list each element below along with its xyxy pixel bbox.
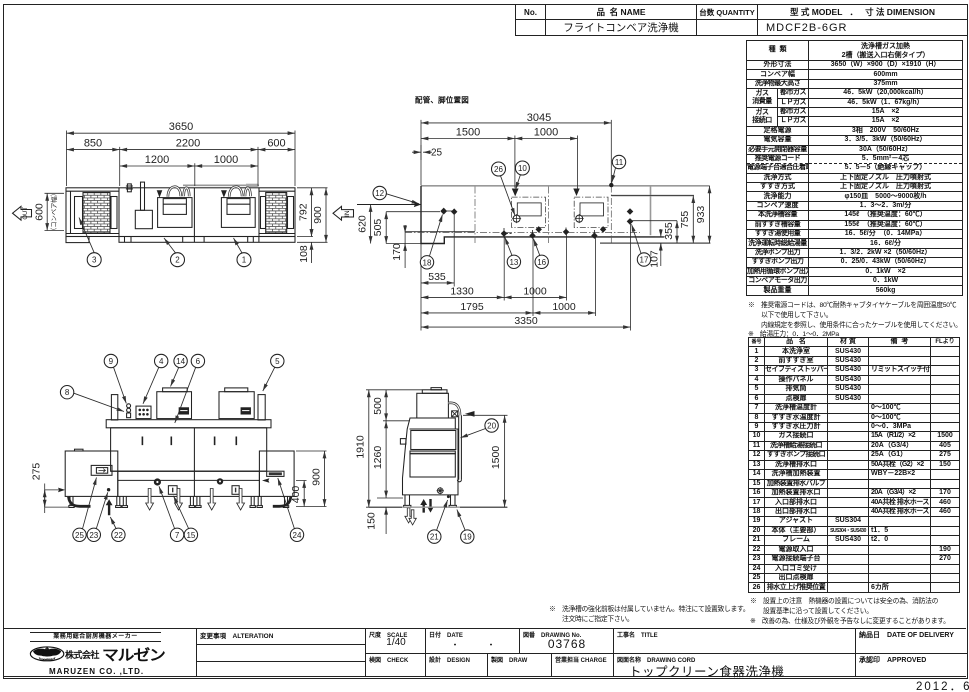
end hood — [417, 393, 449, 418]
piping connector lines left tank — [444, 211, 603, 236]
plan section dividers — [119, 188, 259, 237]
piping gas arrow right — [573, 189, 579, 197]
elev dim 900 — [296, 451, 327, 507]
balloon 26 — [492, 162, 506, 176]
plan wash tank left — [158, 198, 192, 228]
plan left conveyor small rect — [75, 197, 83, 229]
end balloon 20 — [485, 419, 498, 432]
elev control panel (item 4) — [136, 406, 151, 419]
plan dimension extension lines — [45, 131, 328, 243]
dim 25 — [412, 151, 421, 153]
piping gas arrow left — [512, 189, 519, 197]
end drain hollow arrows — [405, 508, 416, 525]
elev safety stopper valves (item 9) — [127, 404, 131, 408]
elev balloon 6 — [191, 354, 204, 367]
dim 1500 — [421, 138, 515, 140]
dim 535 — [421, 282, 454, 284]
date / design — [425, 629, 520, 653]
dim 1000 lower — [533, 312, 596, 314]
elev balloon 8 — [60, 386, 73, 399]
elev balloon 15 — [184, 528, 197, 541]
end dim 150 — [369, 506, 507, 508]
end legs — [404, 495, 457, 507]
elev balloon 25 — [73, 528, 86, 541]
balloon 2 — [164, 238, 176, 253]
piping extension lines — [371, 120, 711, 331]
dim 755 — [692, 196, 694, 244]
plan hose arches left tank — [168, 187, 251, 197]
dim 1000 mid — [504, 296, 566, 298]
elev balloon 4 — [155, 354, 168, 367]
piping wash tank left (chain) — [512, 197, 546, 227]
end extension lines — [366, 390, 508, 507]
scale / check — [365, 629, 426, 653]
piping wash tank right (chain) — [574, 197, 608, 227]
dim 3045 — [421, 122, 611, 124]
elev balloon 14 — [174, 354, 187, 367]
end door panel — [410, 454, 455, 477]
balloon 18 — [420, 256, 433, 269]
elev base — [111, 470, 267, 472]
dim 600 top — [258, 149, 295, 151]
plan left step — [66, 237, 89, 243]
balloon 1 — [234, 238, 243, 253]
end inlet arrow (solid left) — [465, 411, 475, 417]
dim 1330 — [421, 296, 504, 298]
plan right conveyor belt hatch — [266, 193, 287, 234]
OUT arrow — [13, 206, 32, 220]
plan body outline — [66, 188, 295, 237]
title / drawing cord — [613, 629, 856, 653]
elev balloon 24 — [290, 528, 303, 541]
piping phantom outline (gray) — [421, 186, 710, 235]
elev upper body / doors — [111, 428, 267, 471]
piping gas inlet circle right — [576, 215, 583, 222]
elev left hood box — [157, 392, 192, 419]
end adjuster cross — [437, 488, 443, 494]
balloon 16 — [535, 255, 548, 268]
IN arrow piping — [333, 206, 354, 220]
dim 1000 top — [515, 138, 578, 140]
plan right conveyor frame — [259, 191, 295, 233]
elev balloon 5 — [271, 354, 284, 367]
balloon 3 — [79, 218, 94, 253]
svg-text:MARUZEN: MARUZEN — [40, 656, 54, 660]
end small dot — [447, 495, 450, 498]
end balloon 19 — [461, 530, 474, 543]
elev door handles — [142, 437, 236, 446]
dim 107 — [660, 229, 662, 237]
elev balloon 23 — [87, 528, 100, 541]
elev right hood box — [219, 392, 254, 419]
plan gas arrow left tank — [157, 190, 163, 197]
piping bottom line ext — [386, 243, 421, 245]
plan gas arrow right tank — [221, 190, 227, 197]
end dim 1910 — [368, 390, 370, 507]
elev valve left (item 7) — [154, 478, 161, 485]
maruzen bird logo — [29, 646, 66, 662]
end conveyor slot band — [410, 451, 455, 454]
elev right table — [259, 451, 294, 496]
elev balloon 7 — [170, 528, 183, 541]
end balloon 21 — [428, 530, 441, 543]
balloon 13 — [507, 255, 520, 268]
elev balloon 9 — [104, 354, 117, 367]
plan left conveyor frame — [66, 191, 119, 233]
elev dim 275 — [44, 490, 46, 507]
balloon 12 — [373, 186, 386, 199]
end dim 500 — [385, 390, 387, 421]
dim 1200 — [120, 165, 195, 167]
elev left table — [65, 451, 118, 496]
piping machine solid outline — [421, 186, 664, 244]
end rear box — [400, 439, 406, 445]
dim 933 — [709, 186, 711, 243]
balloon 10 — [515, 161, 529, 175]
dim 1795 — [421, 312, 533, 314]
dim 108 — [311, 242, 313, 263]
elev right exhaust post — [258, 395, 265, 420]
dim 505 — [385, 212, 387, 244]
elev left exhaust post — [111, 395, 117, 420]
elev valve right — [217, 478, 223, 484]
elev terminal dot (item 23) — [107, 488, 110, 491]
elev legs — [69, 496, 289, 507]
elev drain hose left (item 17) — [69, 497, 91, 507]
parts table — [748, 337, 959, 593]
header table — [515, 4, 967, 35]
alteration cell — [196, 629, 366, 676]
elev power inlet arrow (item 22, solid up) — [106, 499, 113, 515]
elev control panel buttons — [139, 409, 149, 416]
dim 850 — [67, 149, 120, 151]
dim 3650 — [67, 132, 296, 134]
date bottom right — [916, 678, 969, 692]
notes under parts table — [750, 597, 968, 626]
dim 1000 — [195, 165, 258, 167]
delivery / approved — [855, 629, 967, 653]
end right pipe — [459, 415, 462, 480]
plan skirt ticks — [125, 237, 259, 243]
dim 792 — [311, 188, 313, 237]
dim 3350 — [421, 326, 631, 328]
plan small fitting top-left — [127, 184, 131, 192]
end dim 1500 — [504, 415, 506, 507]
dim 2200 — [120, 149, 258, 151]
title block — [3, 628, 966, 677]
plan left conveyor belt hatch — [83, 193, 110, 234]
end dim 1260 — [385, 421, 387, 498]
elev hollow drain arrows (item 26) — [146, 489, 245, 511]
end hose arch — [448, 403, 460, 415]
plan wash tank right — [221, 198, 255, 228]
notes under spec table — [748, 301, 966, 340]
balloon 17 — [637, 253, 650, 266]
elev dim 400 — [303, 481, 305, 507]
plan detergent box with pipe — [135, 210, 152, 228]
elev sign right — [267, 471, 284, 476]
piping drain diamonds — [440, 208, 633, 239]
elev balloon 22 — [112, 528, 125, 541]
elev left hood cap — [163, 388, 188, 392]
dim 600 conveyor width — [46, 193, 48, 230]
elev drain hose right — [273, 497, 291, 507]
elev drain valve boxes (item 15) — [168, 486, 177, 495]
note above title block — [549, 605, 759, 625]
elev top flange — [106, 420, 271, 428]
elev right hood cap — [225, 388, 248, 392]
end black fitting — [452, 411, 458, 417]
plan gray phantom top line — [183, 184, 259, 186]
balloon 11 — [612, 155, 625, 168]
piping chain center lines — [405, 186, 640, 244]
end body main — [403, 418, 459, 495]
dim 620 — [370, 205, 372, 244]
elev sign left — [91, 465, 112, 475]
plan skirt base — [119, 237, 295, 243]
dim 170 — [404, 225, 406, 233]
dim 900 plan — [325, 188, 327, 243]
end water arrows solid up/down — [420, 499, 427, 513]
dim 355 — [676, 221, 678, 243]
maruzen logo cell — [3, 629, 196, 676]
drawing no / charge — [519, 629, 614, 653]
spec table — [746, 40, 962, 296]
piping gas inlet circle left — [513, 215, 520, 222]
